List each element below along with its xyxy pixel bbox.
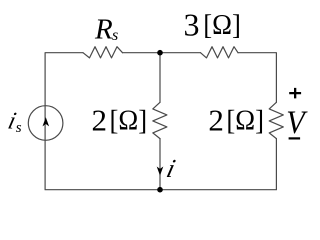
resistor R_s — [83, 47, 123, 58]
label i_s — [5, 108, 19, 135]
svg-text:[Ω]: [Ω] — [110, 105, 148, 137]
wire top-left segment — [45, 53, 83, 123]
bottom node dot — [157, 187, 163, 193]
wire 3 ohm to top-right corner — [238, 53, 276, 103]
svg-text:s: s — [112, 27, 118, 44]
svg-text:s: s — [16, 120, 22, 136]
resistor 3 ohm — [201, 47, 239, 58]
node A dot — [157, 50, 163, 56]
current source arrowhead — [43, 117, 50, 126]
current source circle — [28, 106, 63, 141]
svg-text:[Ω]: [Ω] — [226, 105, 264, 137]
svg-text:2: 2 — [208, 103, 224, 138]
svg-text:2: 2 — [92, 103, 108, 138]
resistor 2 ohm middle — [153, 102, 167, 138]
resistor 2 ohm right — [269, 102, 283, 138]
svg-text:V: V — [286, 105, 308, 141]
branch current arrowhead — [157, 167, 164, 176]
svg-text:[Ω]: [Ω] — [203, 9, 241, 41]
wire right to bottom — [45, 123, 276, 190]
label plus — [289, 88, 301, 99]
wire R_s to node A — [123, 52, 201, 54]
svg-text:R: R — [94, 13, 113, 45]
wire node A down to middle resistor — [159, 53, 161, 103]
svg-text:i: i — [164, 153, 179, 183]
label i branch current — [164, 153, 179, 183]
svg-text:3: 3 — [184, 7, 200, 43]
label minus — [289, 137, 301, 139]
wire middle resistor to bottom node — [159, 139, 161, 190]
